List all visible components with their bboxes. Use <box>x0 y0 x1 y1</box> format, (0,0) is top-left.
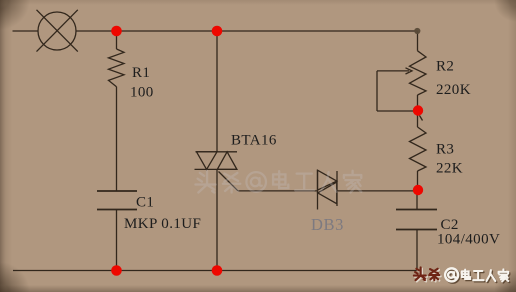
capacitor C2 <box>396 210 437 230</box>
node: top rail corner junction square <box>414 28 420 34</box>
svg-text:R2: R2 <box>436 59 454 75</box>
wire: R2 wiper arm <box>377 68 414 111</box>
node D junction dot (R3/C2/diac) <box>413 185 423 195</box>
svg-text:MKP 0.1UF: MKP 0.1UF <box>124 216 201 232</box>
wire: left branch down to R1 <box>116 31 118 49</box>
capacitor C1 <box>97 191 137 210</box>
wire: triac gate diagonal <box>219 172 239 191</box>
wire: AC input left segment <box>13 30 39 32</box>
vignette edges <box>0 0 12 292</box>
wire: top rail corner down to R2 <box>417 31 419 51</box>
svg-text:R1: R1 <box>132 65 150 81</box>
svg-text:R3: R3 <box>436 142 454 158</box>
wire: bottom rail <box>13 270 418 272</box>
wire: middle branch down to triac <box>216 31 218 152</box>
svg-text:220K: 220K <box>436 82 471 98</box>
svg-text:104/400V: 104/400V <box>437 232 500 248</box>
wire: node to R3 <box>417 111 419 128</box>
resistor R1 <box>109 49 125 87</box>
resistor R2 potentiometer <box>410 51 427 95</box>
svg-text:C1: C1 <box>136 195 154 211</box>
node E junction dot (bottom left) <box>111 265 122 276</box>
wire: node to C2 <box>416 190 418 210</box>
svg-text:DB3: DB3 <box>311 215 344 234</box>
wire: diac to R3/C2 node <box>337 190 418 192</box>
watermark: bottom right 头条 <box>414 267 441 281</box>
wire: gate to diac <box>238 190 318 192</box>
wire: R3 to node <box>417 171 419 190</box>
wire: C1 to bottom rail <box>116 210 118 271</box>
node B junction dot <box>212 26 223 37</box>
wire: R1 to C1 <box>116 87 118 191</box>
svg-text:100: 100 <box>130 85 154 101</box>
lamp L1 <box>37 10 78 52</box>
node F junction dot (bottom middle) <box>212 265 223 276</box>
watermark: faint center 头条@电工人家 <box>195 171 361 193</box>
wire: R2 bottom lead <box>417 95 419 111</box>
wire: tick below node <box>420 116 423 121</box>
diac D1 DB3 <box>318 170 338 210</box>
resistor R3 <box>410 127 427 171</box>
wire: top rail from lamp to right corner <box>76 30 418 32</box>
svg-text:22K: 22K <box>436 161 463 177</box>
node A junction dot <box>111 26 122 37</box>
svg-text:BTA16: BTA16 <box>231 133 277 149</box>
wire: C2 to bottom rail <box>416 230 418 271</box>
node C junction dot (R2/R3) <box>413 105 423 115</box>
wire: triac bottom to rail <box>216 169 218 270</box>
watermark: bottom right @电工人家 <box>445 268 509 282</box>
triac Q1 BTA16 <box>195 152 238 170</box>
